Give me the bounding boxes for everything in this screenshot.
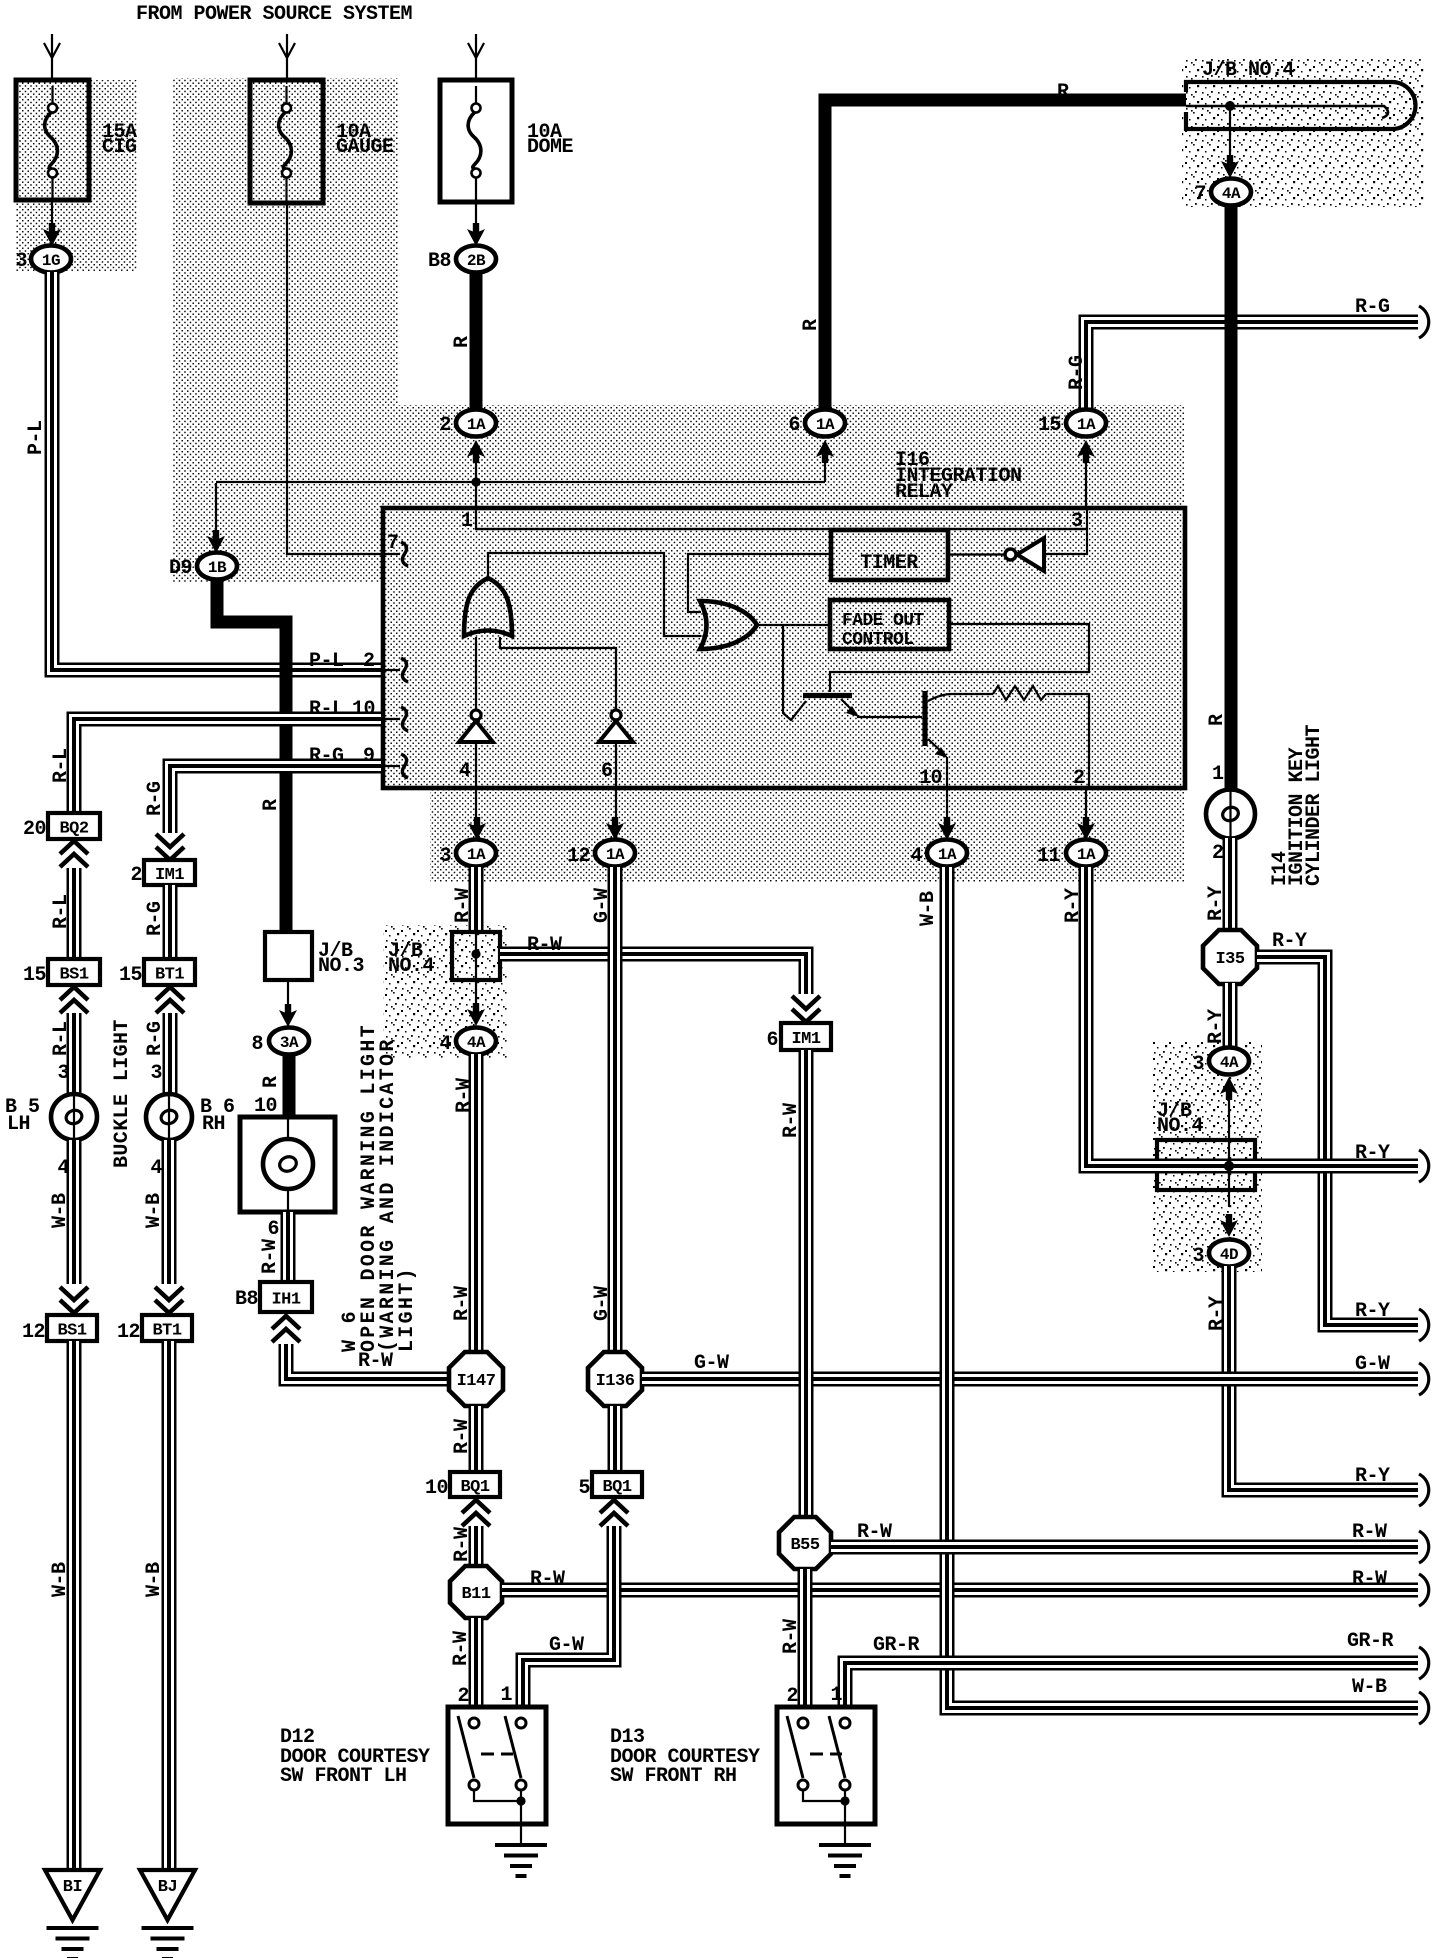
connector 12 BS1 [22,1315,97,1344]
svg-text:R: R [451,336,474,348]
svg-text:7: 7 [387,532,399,555]
stipple region around CIG fuse [16,80,137,272]
connector 15 BS1 [23,959,100,987]
svg-text:R-L: R-L [50,748,73,783]
connector 5 BQ1 [578,1472,642,1500]
wire R-L pin10 to BQ2 [50,719,381,812]
svg-text:12: 12 [117,1321,140,1344]
lamp B5 buckle light LH [5,1094,97,1140]
svg-text:LH: LH [7,1113,30,1136]
speckle region J/B NO.4 middle [383,925,507,1058]
svg-text:4A: 4A [1222,185,1241,203]
svg-text:1A: 1A [1077,846,1096,864]
svg-text:1: 1 [461,510,473,533]
connector 8 (3A) [251,1028,309,1057]
svg-text:R-Y: R-Y [1272,930,1307,953]
wire R-G pin9 to IM1 [144,766,381,833]
wire G-W curl [1419,1363,1429,1395]
svg-text:1: 1 [830,1684,842,1707]
svg-text:6: 6 [766,1029,778,1052]
svg-text:R-W: R-W [780,1103,803,1138]
wire R-W curl B55 [1419,1531,1429,1563]
label D12 [280,1726,430,1788]
svg-text:6: 6 [788,414,800,437]
wire R-Y curl bottom [1419,1474,1429,1506]
node junction dot A [216,477,825,486]
connector 10 BQ1 [425,1472,500,1500]
svg-text:1: 1 [1212,763,1224,786]
wire W-B curl [1419,1692,1429,1724]
svg-text:J/B NO.4: J/B NO.4 [1202,59,1295,82]
connector 3 (1G) [15,246,71,274]
svg-text:15: 15 [119,964,142,987]
svg-text:GR-R: GR-R [873,1634,920,1657]
connector B55 [779,1517,831,1569]
svg-text:3: 3 [1192,1245,1204,1268]
wire R-G IM1 to BT1 [144,885,170,958]
svg-text:5: 5 [578,1477,590,1500]
connector 7 (4A) [1194,179,1251,207]
junction block No.4 lower box [1157,1140,1255,1190]
svg-text:BQ2: BQ2 [59,820,88,839]
connector 6 (1A) [788,410,845,483]
buffer U2 [500,637,633,820]
svg-text:G-W: G-W [591,1286,614,1321]
svg-text:1: 1 [500,1684,512,1707]
svg-text:3: 3 [439,845,451,868]
wire R 3A to W6 [254,1054,289,1118]
svg-text:2: 2 [363,650,375,673]
speckle region J/B NO.4 lower right [1152,1042,1262,1272]
stipple band above integration relay [172,405,1185,582]
wire CIG fuse to connector 1G [43,200,61,246]
svg-text:R-W: R-W [259,1239,282,1274]
svg-text:W-B: W-B [49,1562,72,1597]
wire OR1 output to OR2 bottom input [488,553,701,636]
svg-text:B55: B55 [790,1536,819,1555]
svg-text:4A: 4A [467,1034,486,1052]
svg-text:R-W: R-W [530,1568,565,1591]
wire R-W IH1 to I147 [286,1344,449,1379]
svg-text:R: R [1057,81,1069,104]
svg-text:R-L: R-L [50,894,73,929]
svg-text:R-W: R-W [451,1286,474,1321]
connector B8 IH1 [235,1282,312,1312]
label W6 open door warning light [339,1023,419,1352]
svg-text:I35: I35 [1215,950,1244,969]
svg-text:R-W: R-W [451,1527,474,1562]
svg-text:R-W: R-W [452,888,475,923]
svg-text:1A: 1A [467,416,486,434]
svg-text:TIMER: TIMER [860,552,918,575]
svg-text:20: 20 [23,818,46,841]
svg-text:R-W: R-W [1352,1521,1387,1544]
wire R-W 4A to I147 [451,1054,476,1352]
arrow chevron up BQ1-5 [600,1500,628,1526]
svg-text:R: R [260,799,283,811]
svg-text:1G: 1G [42,252,60,270]
svg-text:B11: B11 [461,1585,490,1604]
power feed arrow to CIG fuse [44,34,60,80]
wire R-Y curl mid [1419,1309,1429,1341]
wire R-W I147 to BQ1 [451,1406,476,1471]
svg-text:R-W: R-W [453,1078,476,1113]
svg-text:2: 2 [1073,767,1085,790]
svg-text:BS1: BS1 [57,1322,86,1341]
node junction dot in J/B lower [1224,1155,1234,1178]
fuse 10A GAUGE [250,80,394,203]
wire pin1 net [476,510,1087,533]
svg-text:B8: B8 [235,1288,258,1311]
svg-text:IM1: IM1 [791,1030,820,1049]
svg-text:NO.3: NO.3 [318,955,364,978]
svg-text:4: 4 [459,760,471,783]
svg-text:CYLINDER LIGHT: CYLINDER LIGHT [1303,724,1326,886]
svg-text:R-W: R-W [857,1521,892,1544]
inverter NOT gate [949,538,1044,571]
arrow chevron down BT1-12 [155,1287,183,1313]
connector 15 BT1 [119,959,195,987]
svg-text:4: 4 [910,845,922,868]
relay pin 2 hook [383,658,408,682]
svg-text:15: 15 [1038,414,1061,437]
svg-text:BJ: BJ [158,1878,177,1897]
svg-text:R-G: R-G [144,781,167,816]
svg-text:W-B: W-B [1352,1676,1387,1699]
svg-text:CONTROL: CONTROL [842,630,913,650]
junction block J/B No.4 middle box [452,932,500,980]
svg-text:SW FRONT RH: SW FRONT RH [610,1765,737,1788]
svg-text:R-W: R-W [780,1619,803,1654]
svg-text:R-Y: R-Y [1355,1142,1390,1165]
ground below D12 [495,1801,547,1876]
title FROM POWER SOURCE SYSTEM [136,3,413,26]
wire R-G curl [1419,306,1429,338]
svg-text:R-L: R-L [50,1021,73,1056]
transistor Q2 [925,691,993,820]
svg-text:6: 6 [601,760,613,783]
or-gate OR2 [700,601,757,649]
or-gate OR1 [464,578,512,636]
svg-text:W-B: W-B [49,1193,72,1228]
svg-text:3: 3 [150,1062,162,1085]
connector 12 BT1 [117,1315,192,1344]
wire OR2 output to fade-out [757,624,830,626]
svg-text:BQ1: BQ1 [460,1478,489,1497]
label D13 [610,1726,760,1788]
connector 6 IM1 [766,1023,831,1052]
svg-text:R-G: R-G [1066,355,1089,390]
svg-text:7: 7 [1194,183,1206,206]
junction block J/B No.3 box [265,932,364,980]
connector 3 (4D) [1192,1214,1249,1268]
arrow chevron down BS1-12 [60,1287,88,1313]
wire R-Y from I35 right [1257,930,1418,1325]
wire R-W curl B11 [1419,1574,1429,1606]
svg-text:1B: 1B [208,559,227,577]
arrow chevron up BS1 [60,987,88,1013]
switch D13 door courtesy SW front RH [777,1707,875,1824]
power feed arrow to GAUGE fuse [279,34,295,80]
svg-text:NO.4: NO.4 [1157,1115,1204,1138]
svg-text:BI: BI [63,1878,82,1897]
label P-L 2 at relay pin [309,650,375,673]
wire R-W W6 to IH1 [259,1212,288,1281]
svg-text:RELAY: RELAY [895,481,953,504]
wire R-Y 11(1A) through J/B to curl [1062,867,1418,1166]
svg-text:3: 3 [57,1062,69,1085]
svg-text:NO.4: NO.4 [388,955,435,978]
svg-text:R-G: R-G [1355,296,1390,319]
arrow chevron up IH1 [272,1316,300,1342]
wire 2(1A) to pin 1 and junction [476,458,1087,529]
svg-text:10: 10 [425,1477,448,1500]
wire R to J/B No.4 [800,81,1186,411]
label J/B NO.4 middle [388,940,435,978]
svg-text:GAUGE: GAUGE [336,136,394,159]
connector 3 (1A) below relay [439,817,496,868]
relay pin 7 hook [387,532,408,566]
lamp B6 buckle light RH [146,1094,235,1140]
svg-text:R-Y: R-Y [1062,888,1085,923]
wire fade-out to transistor Q1 base [830,624,1089,692]
connector 4 (1A) below relay [910,817,967,868]
svg-text:12: 12 [22,1321,45,1344]
svg-text:3: 3 [15,250,27,273]
svg-text:15: 15 [23,964,46,987]
block TIMER [831,530,948,580]
wire R-Y I14 to I35 [1205,838,1230,930]
stipple strip below relay [430,790,1185,882]
arrow chevron down IM1 [156,834,184,860]
stipple region gauge fuse column [172,78,398,408]
relay pin labels bottom [919,767,1085,790]
label J/B NO.4 lower [1157,1100,1204,1138]
svg-text:B8: B8 [428,250,451,273]
junction block No.4 bus bar [1186,82,1415,129]
svg-text:GR-R: GR-R [1347,1630,1394,1653]
connector B8 (2B) [428,246,496,274]
wire thick D9 to J/B No.3 [217,579,286,932]
connector 12 (1A) below relay [567,817,635,868]
wire resistor to pin 2 [1086,694,1089,820]
connector B11 [450,1566,502,1618]
wire W-B to BJ ground [143,1341,169,1869]
svg-text:3A: 3A [280,1034,299,1052]
svg-text:W-B: W-B [143,1562,166,1597]
power feed arrow to DOME fuse [468,34,484,80]
wire R-W J/B No.4 to IM1-6 [500,934,806,994]
buffer U1 [459,637,493,820]
svg-text:12: 12 [567,845,590,868]
transistor Q1 [783,624,922,720]
label pin 1 [461,510,473,533]
wire R-Y curl upper [1419,1150,1429,1182]
svg-text:1A: 1A [938,846,957,864]
svg-text:DOME: DOME [527,136,574,159]
wire G-W I136 to right curl [642,1352,1418,1379]
wire R-Y from 4D to curl [1206,1266,1418,1490]
wire R to ignition key light [1206,205,1231,790]
wire R dome [451,272,476,411]
wire W-B below B5 [49,1140,74,1284]
label BUCKLE LIGHT [111,1019,134,1168]
svg-text:11: 11 [1037,845,1061,868]
wire R-W B55 to D13 [780,1569,805,1708]
wire G-W BQ1 to D12 pin1 [500,1526,614,1707]
svg-text:D9: D9 [169,557,192,580]
wire R-W B11 to D12 [450,1618,476,1708]
svg-text:BQ1: BQ1 [602,1478,631,1497]
svg-text:R: R [260,1076,283,1088]
svg-text:R-W: R-W [1352,1568,1387,1591]
svg-text:BUCKLE LIGHT: BUCKLE LIGHT [111,1019,134,1168]
wire P-L [25,272,381,670]
svg-text:3: 3 [1192,1053,1204,1076]
connector 11 (1A) below relay [1037,817,1106,868]
svg-text:P-L: P-L [25,420,48,455]
wire R-W 3(1A) to J/B No.4 [452,867,476,931]
svg-text:IH1: IH1 [271,1291,300,1310]
svg-text:4D: 4D [1220,1246,1238,1264]
wire pin3 to NOT gate [1044,508,1087,554]
svg-text:R-Y: R-Y [1205,886,1228,921]
svg-text:FADE OUT: FADE OUT [842,611,924,631]
svg-text:G-W: G-W [1355,1353,1390,1376]
block FADE OUT CONTROL [830,600,949,650]
svg-text:R-Y: R-Y [1206,1296,1229,1331]
svg-text:1A: 1A [1077,416,1096,434]
wire R-Y I35 down [1205,983,1230,1049]
svg-text:4: 4 [150,1157,162,1180]
svg-text:R-G: R-G [144,1021,167,1056]
connector I147 [449,1352,503,1406]
svg-text:8: 8 [251,1033,263,1056]
svg-text:W-B: W-B [143,1193,166,1228]
svg-text:R: R [800,319,823,331]
node junction dot on bus [1225,101,1235,111]
connector I35 [1203,930,1257,984]
relay pin R-G 9 hook [309,745,408,778]
wire J/B No.3 to 3A [279,980,297,1027]
lamp I14 ignition key cylinder light [1206,790,1255,866]
wire R-W IM1 to B55 [780,1050,806,1517]
resistor R1 [993,686,1089,700]
connector 2 (1A) [439,410,496,464]
svg-text:R-W: R-W [527,934,562,957]
ground BJ [140,1870,195,1958]
svg-text:4: 4 [439,1033,451,1056]
connector I136 [588,1352,642,1406]
arrow chevron up BQ2 [60,841,88,867]
label I16 integration relay [895,449,1022,504]
speckle region J/B NO.4 top right [1182,57,1425,207]
svg-text:6: 6 [267,1218,279,1241]
arrow chevron up BT1 [156,987,184,1013]
fuse 15A CIG [16,80,137,200]
arrow chevron up BQ1 [462,1500,490,1526]
wire R-W B11 to right curl [502,1568,1418,1591]
wire DOME fuse to connector 2B [467,202,485,246]
wire W-B to right curl [917,867,1418,1708]
wire G-W I136 to BQ1-5 [608,1406,623,1471]
wire R-G to right edge [1066,296,1418,410]
wire R-L BS1 to bulb [50,1013,74,1094]
svg-text:SW FRONT LH: SW FRONT LH [280,1765,407,1788]
svg-text:I147: I147 [457,1372,496,1391]
ground below D13 [819,1801,871,1876]
svg-text:CIG: CIG [102,136,137,159]
svg-text:G-W: G-W [549,1634,584,1657]
svg-text:3: 3 [1071,510,1083,533]
wire through J/B No.4 lower [1228,1098,1230,1207]
wire W-B to BI ground [49,1341,74,1869]
svg-text:R-W: R-W [358,1350,393,1373]
connector 4 (4A) [439,980,496,1056]
svg-text:BS1: BS1 [59,966,88,985]
svg-text:I136: I136 [596,1372,635,1391]
svg-text:RH: RH [202,1113,225,1136]
wire GR-R curl [1419,1647,1429,1679]
wire GR-R from D13 pin1 [830,1630,1418,1707]
svg-text:R-W: R-W [450,1631,473,1666]
wire GAUGE fuse to relay pin 7 [287,203,400,554]
svg-text:G-W: G-W [694,1352,729,1375]
wire to D9 connector [207,483,225,553]
svg-text:BT1: BT1 [155,966,184,985]
wire TIMER to OR2 top input [688,554,831,612]
wire R-W B55 to right curl [831,1521,1418,1547]
arrow chevron down IM1-6 [792,996,820,1022]
svg-text:4A: 4A [1220,1054,1239,1072]
svg-text:4: 4 [57,1157,69,1180]
connector 15 (1A) [1038,410,1106,509]
label J/B NO.4 top [1202,59,1295,82]
svg-text:FROM POWER SOURCE SYSTEM: FROM POWER SOURCE SYSTEM [136,3,413,26]
lamp W6 open door warning light [240,1117,335,1212]
svg-text:W-B: W-B [917,891,940,926]
connector 3 (4A) [1192,1048,1249,1101]
stipple region integration relay [383,508,1185,790]
svg-text:2: 2 [1212,842,1224,865]
svg-text:R-Y: R-Y [1355,1300,1390,1323]
fuse 10A DOME [440,80,574,202]
svg-text:2B: 2B [467,252,486,270]
relay I16 integration relay box [383,508,1185,788]
wire R-G BT1 to bulb [144,1013,170,1094]
svg-text:R-W: R-W [451,1419,474,1454]
wire G-W 12(1A) to I136 [591,867,615,1352]
wire bus to connector 4A [1221,106,1239,178]
svg-text:2: 2 [130,864,142,887]
svg-text:R: R [1206,714,1229,726]
wire segment through J/B lower [1228,1158,1230,1174]
ground BI [45,1870,100,1958]
svg-text:LIGHT): LIGHT) [396,1266,419,1352]
connector 20 BQ2 [23,813,100,841]
svg-text:R-Y: R-Y [1205,1009,1228,1044]
svg-text:1A: 1A [606,846,625,864]
relay pin R-L 10 hook [309,698,408,731]
svg-text:1A: 1A [467,846,486,864]
connector D9 (1B) [169,553,237,581]
svg-text:2: 2 [439,414,451,437]
wire R-L BQ2 to BS1 [50,868,74,958]
svg-text:1A: 1A [816,416,835,434]
wire R-W BQ1 to B11 [451,1526,476,1567]
svg-text:R-G: R-G [144,901,167,936]
svg-text:P-L: P-L [309,650,344,673]
